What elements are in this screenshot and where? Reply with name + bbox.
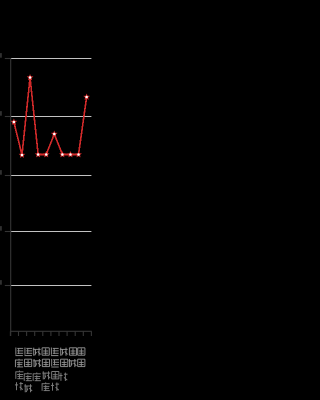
gridline 5 [10,285,91,287]
star marker point 5 [43,151,50,157]
x tick 8 [66,331,68,336]
x label col 8 char 2 [78,359,85,366]
clipped y label fragment 4 [0,226,1,231]
x label col 4 char 2 [42,359,49,366]
x tick 1 [9,331,11,336]
y tick 2 [5,116,11,118]
x label col 1 char 1 [15,348,23,356]
gridline 3 [10,175,91,177]
star marker point 4 [35,151,42,157]
star marker point 1 [11,119,18,125]
x tick 4 [34,331,36,336]
x label col 1 char 3 [15,371,23,379]
gridline 4 [10,231,91,233]
x label col 3 char 3 [33,373,41,381]
x label col 3 char 1 [33,348,41,356]
x label col 3 char 2 [33,359,41,367]
x tick 6 [50,331,52,336]
star marker point 3 [27,74,34,80]
x label col 4 char 3 [42,371,50,379]
star marker point 8 [67,151,74,157]
x label col 2 char 1 [25,348,33,356]
y-axis spine [10,58,12,336]
x label col 7 char 1 [69,348,76,355]
x-axis [10,330,92,332]
x label col 8 char 1 [78,348,85,355]
x tick 10 [82,331,84,336]
clipped y label fragment 2 [0,111,1,116]
data line (red series) [14,78,87,156]
x label col 5 char 4 [51,383,59,391]
x tick 9 [74,331,76,336]
x label col 4 char 1 [42,348,49,355]
y tick 1 [5,58,11,60]
x tick 5 [42,331,44,336]
x label col 2 char 3 [24,373,32,381]
x label col 5 char 2 [51,359,59,367]
x tick 7 [58,331,60,336]
x label col 6 char 1 [60,348,68,356]
gridline 1 [10,58,91,60]
x label col 6 char 2 [61,359,68,366]
clipped y label fragment 5 [0,280,1,285]
gridline 2 [10,116,91,118]
x label col 5 char 3 [52,372,59,379]
y tick 5 [5,285,11,287]
star marker point 2 [19,152,26,158]
x tick 11 [90,331,92,336]
x label col 6 char 3 [59,373,67,381]
x label col 2 char 4 [24,384,32,392]
y tick 3 [5,175,11,177]
x tick 2 [18,331,20,336]
x label col 1 char 2 [15,359,23,367]
star marker point 10 [83,94,90,100]
x label col 7 char 2 [69,359,77,367]
x label col 1 char 4 [15,382,23,390]
star marker point 7 [59,151,66,157]
clipped y label fragment 3 [0,170,1,175]
x label col 2 char 2 [24,359,31,366]
x tick 3 [26,331,28,336]
clipped y label fragment 1 [0,53,1,58]
star marker point 6 [51,131,58,137]
x label col 4 char 4 [42,382,50,390]
x label col 5 char 1 [51,348,59,356]
y tick 4 [5,231,11,233]
star marker point 9 [75,151,82,157]
